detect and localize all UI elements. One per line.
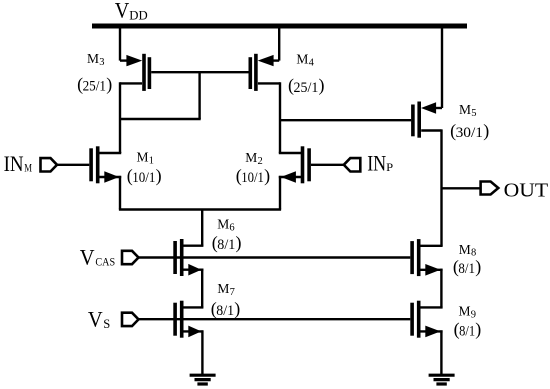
svg-text:5: 5 <box>471 108 476 119</box>
svg-text:7: 7 <box>230 287 235 298</box>
svg-text:M: M <box>137 150 149 165</box>
svg-text:OUT: OUT <box>504 179 549 201</box>
svg-text:V: V <box>88 306 103 331</box>
svg-text:): ) <box>156 166 162 187</box>
svg-text:M: M <box>217 216 229 231</box>
svg-text:8/1: 8/1 <box>459 324 475 340</box>
svg-text:10/1: 10/1 <box>132 170 155 186</box>
svg-text:): ) <box>106 74 112 95</box>
svg-text:6: 6 <box>229 222 234 233</box>
svg-text:P: P <box>386 160 393 174</box>
svg-text:M: M <box>459 304 471 319</box>
svg-text:CAS: CAS <box>95 255 115 269</box>
svg-text:2: 2 <box>258 156 263 167</box>
svg-text:8/1: 8/1 <box>217 237 235 253</box>
svg-text:30/1: 30/1 <box>456 125 483 141</box>
svg-text:M: M <box>459 242 471 257</box>
svg-text:IN: IN <box>367 150 386 175</box>
svg-text:): ) <box>475 319 481 340</box>
svg-text:): ) <box>483 121 489 142</box>
svg-text:25/1: 25/1 <box>294 80 319 96</box>
svg-text:): ) <box>475 256 481 277</box>
svg-text:V: V <box>80 244 95 269</box>
svg-text:M: M <box>217 281 229 296</box>
svg-text:): ) <box>264 166 270 187</box>
svg-text:V: V <box>115 0 130 23</box>
svg-text:10/1: 10/1 <box>241 170 264 186</box>
svg-text:): ) <box>319 75 325 96</box>
svg-text:): ) <box>234 298 240 319</box>
svg-text:1: 1 <box>149 156 154 167</box>
svg-text:M: M <box>245 150 257 165</box>
svg-text:M: M <box>296 51 308 66</box>
svg-text:8/1: 8/1 <box>458 261 475 277</box>
svg-text:3: 3 <box>99 57 104 68</box>
svg-text:M: M <box>24 161 32 175</box>
svg-text:IN: IN <box>4 151 24 176</box>
svg-text:): ) <box>236 233 242 254</box>
svg-text:4: 4 <box>309 57 315 68</box>
svg-text:S: S <box>103 317 110 331</box>
svg-text:M: M <box>87 51 99 66</box>
svg-text:8/1: 8/1 <box>216 303 234 319</box>
svg-text:M: M <box>459 102 471 117</box>
svg-text:25/1: 25/1 <box>83 79 106 95</box>
svg-text:DD: DD <box>129 8 147 23</box>
